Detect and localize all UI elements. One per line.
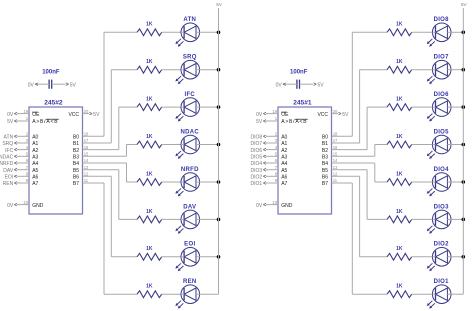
svg-text:11: 11	[333, 178, 338, 183]
svg-text:1K: 1K	[146, 209, 153, 215]
junction dot on 5V rail at SRQ row	[217, 68, 221, 72]
svg-text:12: 12	[84, 172, 89, 177]
LED NDAC	[175, 129, 199, 159]
IC U1 (245#1) octal buffer box	[278, 99, 332, 214]
LED EOI	[175, 242, 199, 272]
resistor R (REN) 1K	[137, 284, 162, 298]
IC U1 pin name A1	[281, 141, 287, 147]
svg-text:B7: B7	[322, 181, 328, 187]
IC U2 pin name GND (pin 10)	[32, 203, 44, 209]
svg-text:15: 15	[84, 152, 89, 157]
IC U1 pin name GND (pin 10)	[281, 203, 293, 209]
svg-text:DIO3: DIO3	[434, 204, 450, 210]
LED IFC	[175, 92, 199, 122]
LED DIO1	[427, 279, 451, 309]
IC U1 pin name B0	[322, 135, 328, 141]
svg-text:A0: A0	[281, 135, 287, 141]
IC U1 pin name A&gt;B/A&lt;B (pin 1)	[281, 119, 308, 125]
wire resistor to LED DIO3	[412, 218, 433, 220]
svg-text:B6: B6	[73, 175, 79, 181]
wire resistor to LED NDAC	[162, 144, 181, 146]
wire LED DIO3 to 5V rail	[451, 218, 463, 220]
LED NRFD	[175, 167, 199, 197]
svg-text:5V: 5V	[256, 119, 263, 125]
svg-text:IFC: IFC	[185, 92, 196, 98]
resistor R (DAV) 1K	[137, 209, 162, 223]
junction dot on 5V rail at NDAC row	[217, 143, 221, 147]
IC U2 pin name A1	[32, 141, 38, 147]
IC U1 pin name B3	[322, 155, 328, 161]
svg-text:1K: 1K	[396, 59, 403, 65]
junction dot on 5V rail at IFC row	[217, 105, 221, 109]
svg-text:A4: A4	[281, 161, 287, 167]
svg-text:1K: 1K	[146, 22, 153, 28]
junction dot on 5V rail at DIO4 row	[462, 180, 466, 184]
junction dot on 5V rail at DAV row	[217, 218, 221, 222]
IC U2 pin name A6	[32, 175, 38, 181]
LED SRQ	[175, 55, 199, 85]
svg-text:14: 14	[333, 158, 338, 163]
svg-text:A0: A0	[32, 135, 38, 141]
wire 0V arm of C1	[276, 82, 297, 88]
svg-text:B2: B2	[322, 148, 328, 154]
wire/net label 5V to U1 pin 1	[256, 116, 278, 125]
junction dot on 5V rail at DIO6 row	[462, 105, 466, 109]
IC U2 pin name B3	[73, 155, 79, 161]
svg-text:B0: B0	[73, 135, 79, 141]
svg-text:DIO5: DIO5	[434, 129, 450, 135]
wire LED EOI to 5V rail	[200, 256, 219, 258]
LED DIO7	[427, 55, 451, 85]
svg-text:DIO2: DIO2	[251, 175, 263, 181]
IC U1 pin name B6	[322, 175, 328, 181]
svg-text:NRFD: NRFD	[0, 161, 14, 167]
svg-text:1K: 1K	[396, 134, 403, 140]
wire/net label 0V to U2 pin 10	[7, 200, 29, 209]
wire U2 pin 18 (B0) to ATN resistor	[83, 32, 138, 136]
IC U2 pin name A2	[32, 148, 38, 154]
svg-text:245#2: 245#2	[44, 99, 63, 106]
svg-text:17: 17	[333, 138, 338, 143]
wire/net label DIO4 to U1 pin 6	[251, 158, 278, 167]
IC U2 pin name B1	[73, 141, 79, 147]
wire/net label 0V to U1 pin 19	[256, 109, 278, 118]
resistor R (DIO4) 1K	[387, 171, 412, 185]
svg-text:DIO7: DIO7	[434, 55, 450, 61]
IC U2 pin name B2	[73, 148, 79, 154]
wire/net label NRFD to U2 pin 6	[0, 158, 29, 167]
IC U2 pin name A4	[32, 161, 38, 167]
junction dot on 5V rail at EOI row	[217, 255, 221, 259]
IC U2 pin name B4	[73, 161, 79, 167]
junction dot on 5V rail at NRFD row	[217, 180, 221, 184]
IC U2 pin name A0	[32, 135, 38, 141]
resistor R (DIO3) 1K	[387, 209, 412, 223]
wire U2 pin 13 (B5) to DAV resistor	[83, 165, 138, 220]
wire LED DIO8 to 5V rail	[451, 31, 463, 33]
capacitor C1 (100nF)	[290, 70, 308, 89]
svg-text:B1: B1	[73, 141, 79, 147]
wire/net label 0V to U1 pin 10	[256, 200, 278, 209]
wire 5V arm of C2	[52, 82, 77, 88]
IC U2 pin name B0	[73, 135, 79, 141]
wire resistor to LED ATN	[162, 31, 181, 33]
LED ATN	[175, 17, 199, 47]
svg-text:A2: A2	[32, 148, 38, 154]
svg-text:DIO5: DIO5	[251, 155, 263, 161]
svg-text:EOI: EOI	[184, 242, 195, 248]
wire LED DIO5 to 5V rail	[451, 144, 463, 146]
wire 5V arm of C1	[300, 82, 325, 88]
svg-text:VCC: VCC	[317, 112, 328, 118]
svg-text:A5: A5	[32, 168, 38, 174]
svg-text:A2: A2	[281, 148, 287, 154]
wire/net label DAV to U2 pin 7	[3, 165, 29, 174]
svg-text:B2: B2	[73, 148, 79, 154]
LED REN	[175, 279, 199, 309]
IC U2 pin name B7	[73, 181, 79, 187]
svg-text:EOI: EOI	[5, 175, 14, 181]
svg-text:A4: A4	[32, 161, 38, 167]
svg-text:DIO4: DIO4	[251, 161, 263, 167]
svg-text:A6: A6	[281, 175, 287, 181]
svg-text:0V: 0V	[7, 203, 14, 209]
wire/net label EOI to U2 pin 8	[5, 172, 29, 181]
svg-text:11: 11	[84, 178, 89, 183]
svg-text:12: 12	[333, 172, 338, 177]
svg-text:1K: 1K	[396, 97, 403, 103]
svg-text:5V: 5V	[318, 82, 325, 88]
LED DAV	[175, 204, 199, 234]
wire/net label ATN to U2 pin 2	[4, 132, 29, 141]
svg-text:1K: 1K	[146, 246, 153, 252]
power rail 5V (unit 2 side)	[216, 2, 223, 294]
IC U2 pin name B6	[73, 175, 79, 181]
wire LED SRQ to 5V rail	[200, 69, 219, 71]
svg-text:A3: A3	[281, 155, 287, 161]
IC U2 pin name B5	[73, 168, 79, 174]
wire U1 pin 12 (B6) to DIO2 resistor	[332, 172, 388, 257]
wire U1 pin 15 (B3) to DIO5 resistor	[332, 145, 388, 157]
wire/net label DIO1 to U1 pin 9	[251, 178, 278, 187]
wire U2 pin 17 (B1) to SRQ resistor	[83, 70, 138, 144]
svg-text:DIO3: DIO3	[251, 168, 263, 174]
wire/net label 5V to U2 VCC pin 20	[83, 109, 101, 118]
LED DIO2	[427, 242, 451, 272]
svg-text:14: 14	[84, 158, 89, 163]
wire U2 pin 12 (B6) to EOI resistor	[83, 172, 138, 257]
svg-text:SRQ: SRQ	[183, 55, 197, 61]
svg-text:5V: 5V	[93, 112, 100, 118]
junction dot on 5V rail at ATN row	[217, 31, 221, 35]
svg-text:B1: B1	[322, 141, 328, 147]
svg-text:B5: B5	[73, 168, 79, 174]
svg-text:1K: 1K	[146, 134, 153, 140]
wire LED REN to 5V rail	[200, 293, 219, 295]
svg-text:1K: 1K	[396, 209, 403, 215]
svg-text:DIO2: DIO2	[434, 242, 450, 248]
svg-text:5V: 5V	[216, 2, 223, 7]
svg-text:A3: A3	[32, 155, 38, 161]
svg-text:DIO1: DIO1	[251, 181, 263, 187]
resistor R (DIO5) 1K	[387, 134, 412, 148]
svg-text:REN: REN	[183, 279, 197, 285]
svg-text:0V: 0V	[7, 112, 14, 118]
wire resistor to LED DIO4	[412, 181, 433, 183]
wire U1 pin 13 (B5) to DIO3 resistor	[332, 165, 388, 220]
wire resistor to LED DAV	[162, 218, 181, 220]
svg-text:A1: A1	[32, 141, 38, 147]
resistor R (DIO7) 1K	[387, 59, 412, 73]
svg-text:0V: 0V	[256, 203, 263, 209]
wire U1 pin 18 (B0) to DIO8 resistor	[332, 32, 388, 136]
svg-text:REN: REN	[3, 181, 14, 187]
svg-text:NRFD: NRFD	[181, 167, 199, 173]
svg-text:0V: 0V	[256, 112, 263, 118]
svg-text:18: 18	[84, 132, 89, 137]
IC U1 pin name A7	[281, 181, 287, 187]
svg-text:20: 20	[84, 109, 89, 114]
svg-text:1K: 1K	[396, 246, 403, 252]
junction dot on 5V rail at DIO5 row	[462, 143, 466, 147]
svg-text:1K: 1K	[396, 22, 403, 28]
svg-text:15: 15	[333, 152, 338, 157]
svg-text:A7: A7	[281, 181, 287, 187]
wire U2 pin 11 (B7) to REN resistor	[83, 178, 138, 294]
IC U1 pin name B1	[322, 141, 328, 147]
svg-text:100nF: 100nF	[290, 70, 308, 76]
svg-text:0V: 0V	[276, 82, 283, 88]
wire U1 pin 17 (B1) to DIO7 resistor	[332, 70, 388, 144]
wire LED IFC to 5V rail	[200, 106, 219, 108]
resistor R (NDAC) 1K	[137, 134, 162, 148]
wire LED DIO2 to 5V rail	[451, 256, 463, 258]
svg-text:GND: GND	[32, 203, 44, 209]
IC U1 pin name VCC (pin 20)	[317, 112, 328, 118]
svg-text:B4: B4	[73, 161, 79, 167]
wire resistor to LED REN	[162, 293, 181, 295]
IC U2 (245#2) octal buffer box	[29, 99, 83, 214]
wire U2 pin 15 (B3) to NDAC resistor	[83, 145, 138, 157]
wire/net label DIO3 to U1 pin 7	[251, 165, 278, 174]
svg-text:SRQ: SRQ	[2, 141, 13, 147]
IC U2 pin name OE (pin 19) with overline	[32, 112, 40, 118]
svg-text:B3: B3	[322, 155, 328, 161]
wire resistor to LED DIO1	[412, 293, 433, 295]
IC U2 pin name A7	[32, 181, 38, 187]
IC U2 pin name VCC (pin 20)	[68, 112, 79, 118]
resistor R (DIO2) 1K	[387, 246, 412, 260]
svg-text:DAV: DAV	[183, 204, 196, 210]
LED DIO3	[427, 204, 451, 234]
svg-text:0V: 0V	[28, 82, 35, 88]
wire/net label SRQ to U2 pin 3	[2, 138, 29, 147]
svg-text:13: 13	[333, 165, 338, 170]
svg-text:A6: A6	[32, 175, 38, 181]
LED DIO5	[427, 129, 451, 159]
svg-text:B0: B0	[322, 135, 328, 141]
resistor R (EOI) 1K	[137, 246, 162, 260]
svg-text:GND: GND	[281, 203, 293, 209]
resistor R (NRFD) 1K	[137, 171, 162, 185]
svg-text:16: 16	[84, 145, 89, 150]
IC U1 pin name A3	[281, 155, 287, 161]
svg-text:100nF: 100nF	[42, 70, 60, 76]
junction dot on 5V rail at DIO8 row	[462, 31, 466, 35]
LED DIO4	[427, 167, 451, 197]
wire LED DAV to 5V rail	[200, 218, 219, 220]
IC U1 pin name OE (pin 19) with overline	[281, 112, 289, 118]
junction dot on 5V rail at DIO7 row	[462, 68, 466, 72]
svg-text:NDAC: NDAC	[0, 155, 14, 161]
wire LED DIO7 to 5V rail	[451, 69, 463, 71]
svg-text:DIO6: DIO6	[434, 92, 450, 98]
svg-text:10: 10	[23, 200, 28, 205]
wire LED ATN to 5V rail	[200, 31, 219, 33]
svg-text:B7: B7	[73, 181, 79, 187]
svg-text:5V: 5V	[70, 82, 77, 88]
svg-text:IFC: IFC	[5, 148, 13, 154]
IC U1 pin name A0	[281, 135, 287, 141]
wire resistor to LED SRQ	[162, 69, 181, 71]
svg-text:B3: B3	[73, 155, 79, 161]
capacitor C2 (100nF)	[42, 70, 60, 89]
LED DIO6	[427, 92, 451, 122]
junction dot on 5V rail at DIO2 row	[462, 255, 466, 259]
svg-text:DIO6: DIO6	[251, 148, 263, 154]
svg-text:A5: A5	[281, 168, 287, 174]
svg-text:DIO8: DIO8	[251, 135, 263, 141]
wire/net label DIO6 to U1 pin 4	[251, 145, 278, 154]
svg-text:1K: 1K	[396, 284, 403, 290]
svg-text:A>B/A<B: A>B/A<B	[281, 119, 307, 125]
svg-text:20: 20	[333, 109, 338, 114]
svg-text:245#1: 245#1	[293, 99, 312, 106]
svg-text:10: 10	[272, 200, 277, 205]
svg-text:17: 17	[84, 138, 89, 143]
svg-text:1K: 1K	[146, 59, 153, 65]
LED DIO8	[427, 17, 451, 47]
svg-text:19: 19	[272, 109, 277, 114]
svg-text:ATN: ATN	[4, 135, 14, 141]
wire U2 pin 14 (B4) to NRFD resistor	[83, 158, 138, 182]
wire 0V arm of C2	[28, 82, 49, 88]
svg-text:A7: A7	[32, 181, 38, 187]
svg-text:DIO7: DIO7	[251, 141, 263, 147]
junction dot on 5V rail at DIO3 row	[462, 218, 466, 222]
wire/net label 5V to U1 VCC pin 20	[332, 109, 350, 118]
svg-text:5V: 5V	[342, 112, 349, 118]
svg-text:13: 13	[84, 165, 89, 170]
svg-text:1K: 1K	[146, 97, 153, 103]
wire LED DIO1 to 5V rail	[451, 293, 463, 295]
wire/net label NDAC to U2 pin 5	[0, 152, 29, 161]
IC U1 pin name A2	[281, 148, 287, 154]
svg-text:OE: OE	[32, 112, 40, 118]
IC U2 pin name A&gt;B/A&lt;B (pin 1)	[32, 119, 59, 125]
wire LED NDAC to 5V rail	[200, 144, 219, 146]
wire resistor to LED IFC	[162, 106, 181, 108]
wire resistor to LED DIO8	[412, 31, 433, 33]
IC U1 pin name B4	[322, 161, 328, 167]
wire/net label 0V to U2 pin 19	[7, 109, 29, 118]
wire/net label DIO2 to U1 pin 8	[251, 172, 278, 181]
wire LED DIO6 to 5V rail	[451, 106, 463, 108]
svg-text:A>B/A<B: A>B/A<B	[32, 119, 58, 125]
wire resistor to LED EOI	[162, 256, 181, 258]
svg-text:19: 19	[23, 109, 28, 114]
wire U1 pin 14 (B4) to DIO4 resistor	[332, 158, 388, 182]
svg-text:18: 18	[333, 132, 338, 137]
wire U1 pin 16 (B2) to DIO6 resistor	[332, 107, 388, 150]
svg-text:DAV: DAV	[3, 168, 14, 174]
wire resistor to LED DIO2	[412, 256, 433, 258]
resistor R (ATN) 1K	[137, 22, 162, 36]
resistor R (DIO6) 1K	[387, 97, 412, 111]
wire resistor to LED NRFD	[162, 181, 181, 183]
IC U1 pin name B7	[322, 181, 328, 187]
resistor R (SRQ) 1K	[137, 59, 162, 73]
svg-text:1K: 1K	[396, 171, 403, 177]
IC U2 pin name A5	[32, 168, 38, 174]
wire/net label DIO7 to U1 pin 3	[251, 138, 278, 147]
wire/net label REN to U2 pin 9	[3, 178, 29, 187]
IC U1 pin name A4	[281, 161, 287, 167]
wire/net label 5V to U2 pin 1	[7, 116, 29, 125]
svg-text:1K: 1K	[146, 171, 153, 177]
svg-text:16: 16	[333, 145, 338, 150]
svg-text:5V: 5V	[7, 119, 14, 125]
svg-text:B5: B5	[322, 168, 328, 174]
svg-text:DIO8: DIO8	[434, 17, 450, 23]
wire/net label DIO8 to U1 pin 2	[251, 132, 278, 141]
IC U1 pin name B5	[322, 168, 328, 174]
resistor R (DIO8) 1K	[387, 22, 412, 36]
svg-text:B6: B6	[322, 175, 328, 181]
power rail 5V (unit 1 side)	[461, 2, 468, 294]
wire resistor to LED DIO6	[412, 106, 433, 108]
resistor R (IFC) 1K	[137, 97, 162, 111]
IC U2 pin name A3	[32, 155, 38, 161]
wire U2 pin 16 (B2) to IFC resistor	[83, 107, 138, 150]
wire resistor to LED DIO5	[412, 144, 433, 146]
wire/net label DIO5 to U1 pin 5	[251, 152, 278, 161]
svg-text:5V: 5V	[461, 2, 468, 7]
svg-text:DIO1: DIO1	[434, 279, 450, 285]
svg-text:NDAC: NDAC	[181, 129, 200, 135]
IC U1 pin name B2	[322, 148, 328, 154]
wire U1 pin 11 (B7) to DIO1 resistor	[332, 178, 388, 294]
wire resistor to LED DIO7	[412, 69, 433, 71]
svg-text:OE: OE	[281, 112, 289, 118]
resistor R (DIO1) 1K	[387, 284, 412, 298]
wire LED NRFD to 5V rail	[200, 181, 219, 183]
svg-text:ATN: ATN	[183, 17, 196, 23]
svg-text:VCC: VCC	[68, 112, 79, 118]
svg-text:1K: 1K	[146, 284, 153, 290]
wire LED DIO4 to 5V rail	[451, 181, 463, 183]
IC U1 pin name A5	[281, 168, 287, 174]
IC U1 pin name A6	[281, 175, 287, 181]
svg-text:DIO4: DIO4	[434, 167, 450, 173]
wire/net label IFC to U2 pin 4	[5, 145, 29, 154]
svg-text:A1: A1	[281, 141, 287, 147]
svg-text:B4: B4	[322, 161, 328, 167]
